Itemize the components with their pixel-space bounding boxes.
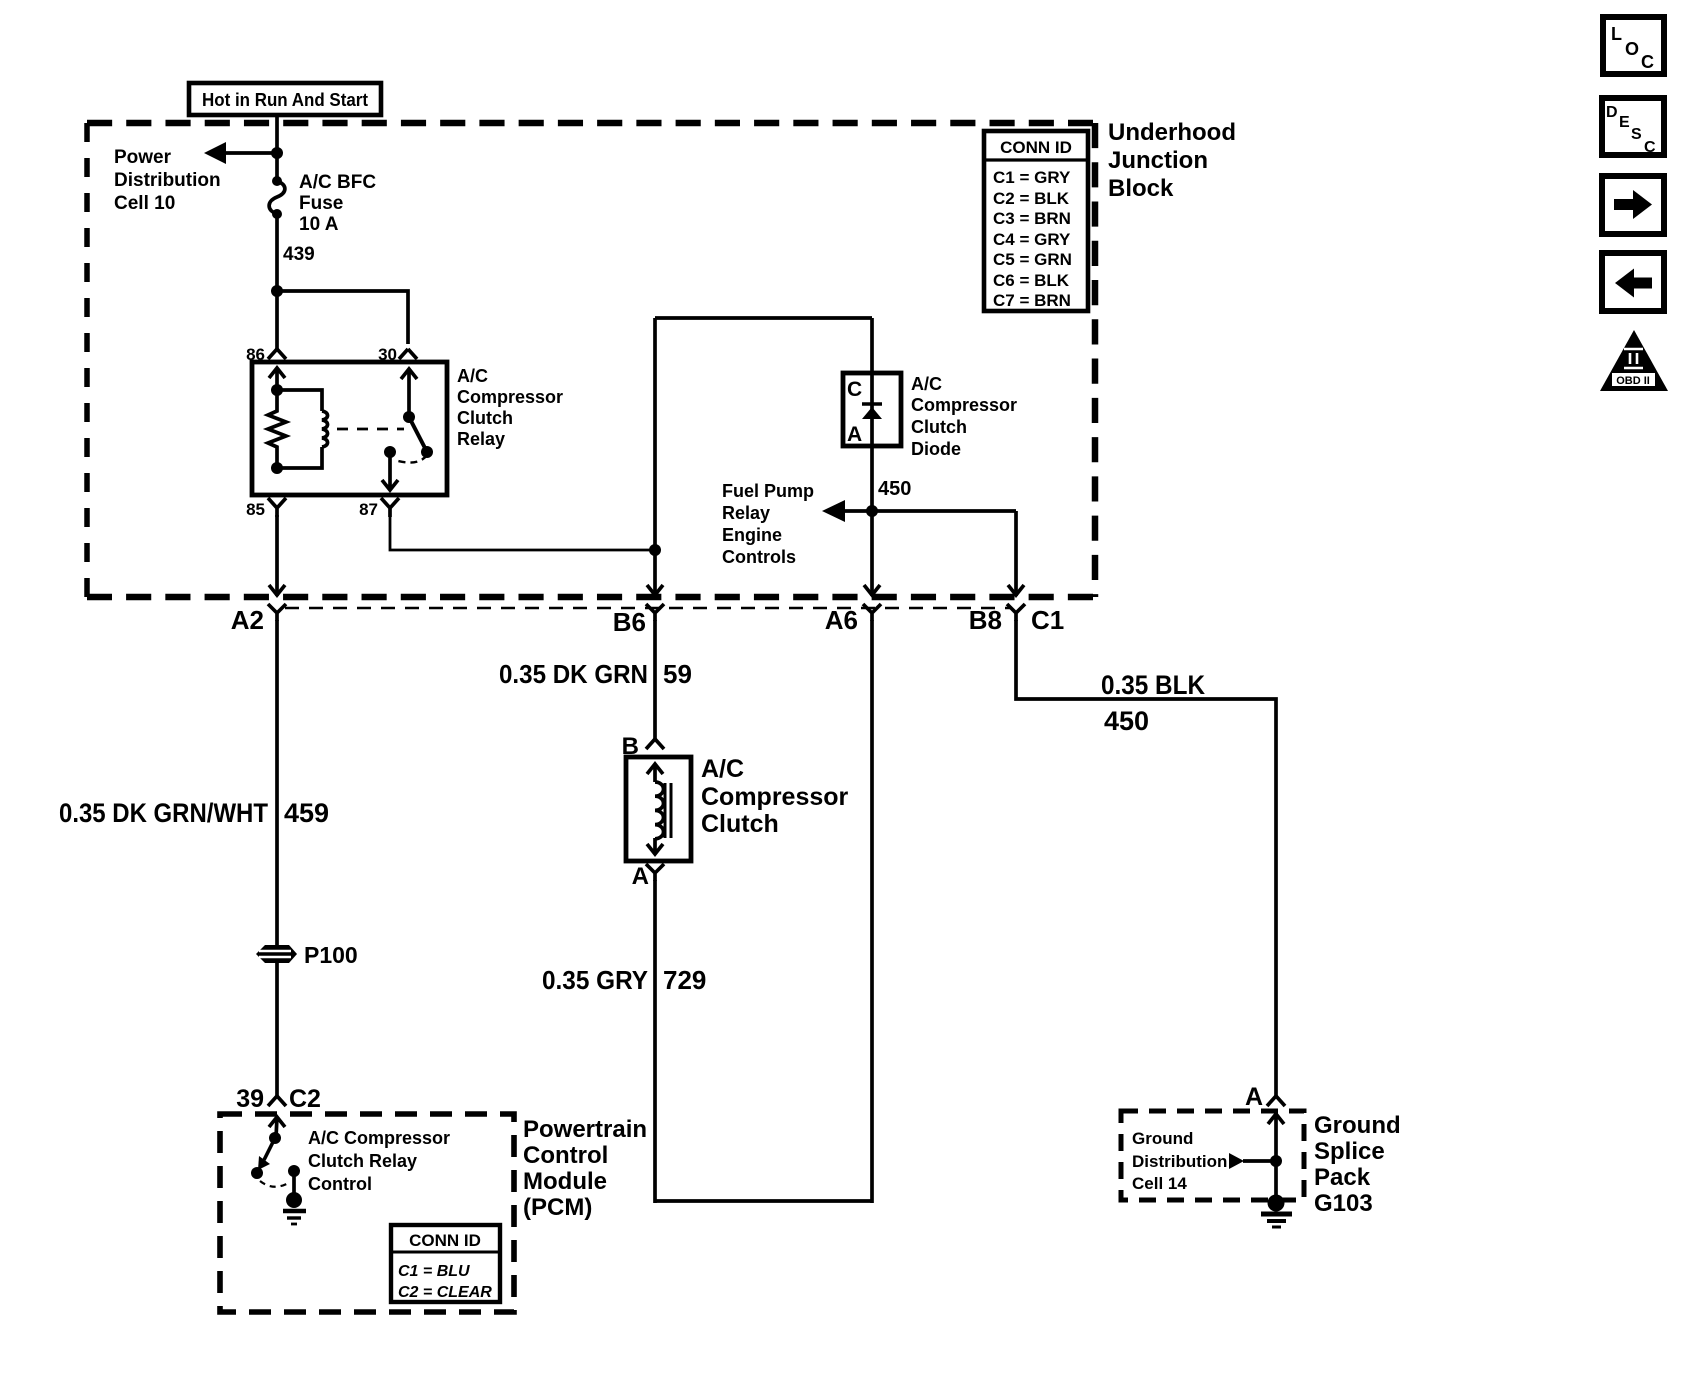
power source box "Hot In Run And Start"	[189, 83, 381, 115]
relay coil	[322, 411, 328, 447]
arrow to fuel pump relay	[822, 500, 845, 522]
wire to power distribution	[222, 151, 277, 155]
wire relay 87 to clutch loop	[390, 517, 650, 550]
label A/C Compressor Clutch Relay	[457, 366, 563, 449]
svg-text:C: C	[847, 378, 862, 401]
svg-text:C: C	[1644, 139, 1656, 156]
female connector G103 pin A	[1267, 1096, 1285, 1106]
relay coil branch wires	[277, 390, 322, 468]
svg-text:C1: C1	[1031, 605, 1064, 635]
wire fuel pump node to B8	[1014, 511, 1018, 596]
svg-text:0.35 DK GRN: 0.35 DK GRN	[499, 659, 648, 689]
svg-text:A/C BFC: A/C BFC	[299, 172, 376, 193]
svg-text:A6: A6	[825, 605, 858, 635]
svg-text:Module: Module	[523, 1168, 607, 1195]
female connector clutch pin B	[646, 739, 664, 749]
svg-text:Fuel Pump: Fuel Pump	[722, 481, 814, 501]
svg-text:E: E	[1619, 114, 1630, 131]
node relay switch moving contact	[421, 446, 433, 458]
svg-text:A: A	[847, 423, 862, 446]
wire hot feed into block	[275, 115, 279, 180]
svg-text:Controls: Controls	[722, 547, 796, 567]
relay switch travel dashed arc	[398, 455, 427, 463]
svg-text:729: 729	[663, 965, 706, 995]
svg-text:C2 = CLEAR: C2 = CLEAR	[398, 1284, 492, 1301]
svg-text:Power: Power	[114, 147, 172, 168]
clutch loop right wire upper	[870, 318, 874, 375]
svg-text:Ground: Ground	[1132, 1129, 1193, 1148]
svg-text:Engine: Engine	[722, 525, 782, 545]
svg-text:Control: Control	[523, 1142, 608, 1169]
svg-text:CONN ID: CONN ID	[409, 1231, 481, 1250]
A/C compressor clutch diode box	[843, 373, 901, 446]
svg-text:G103: G103	[1314, 1190, 1373, 1217]
svg-text:59: 59	[663, 659, 692, 689]
PCM ground ball	[286, 1192, 302, 1208]
svg-text:S: S	[1631, 126, 1642, 143]
pin 30 female connector	[399, 349, 417, 359]
splice ground bars	[1261, 1214, 1292, 1227]
wire A6 down to loop bottom	[870, 620, 874, 1203]
svg-text:Clutch: Clutch	[701, 810, 779, 838]
fuse A/C BFC 10A	[269, 176, 285, 219]
svg-text:85: 85	[246, 500, 265, 519]
splice ground wire	[1274, 1161, 1278, 1198]
clutch coil bottom arrow	[647, 838, 663, 854]
clutch loop bottom wire	[655, 1199, 872, 1203]
wire to fuel pump relay	[843, 509, 1016, 513]
svg-text:Ground: Ground	[1314, 1112, 1401, 1139]
svg-text:C2: C2	[289, 1085, 321, 1113]
label Underhood Junction Block	[1108, 119, 1236, 202]
wire to relay pin 86	[275, 291, 279, 350]
clutch loop top wire	[655, 316, 872, 320]
svg-text:Cell 10: Cell 10	[114, 193, 175, 214]
wire 459 DK GRN/WHT	[275, 620, 279, 947]
node PCM ground stem top	[288, 1165, 300, 1177]
pin 85 female connector	[268, 498, 286, 517]
svg-text:0.35 BLK: 0.35 BLK	[1101, 670, 1205, 700]
svg-text:A/C: A/C	[457, 366, 488, 386]
svg-text:Junction: Junction	[1108, 147, 1208, 174]
A/C compressor clutch box	[626, 757, 691, 861]
svg-text:CONN ID: CONN ID	[1000, 138, 1072, 157]
relay coil-switch dashed link	[337, 428, 404, 431]
female connector B8	[1007, 604, 1025, 621]
svg-text:A/C Compressor: A/C Compressor	[308, 1128, 450, 1148]
svg-text:87: 87	[359, 500, 378, 519]
wire 59 DK GRN	[653, 620, 657, 740]
male arrow at A6	[864, 585, 880, 595]
svg-text:Distribution: Distribution	[1132, 1152, 1227, 1171]
sidebar previous-page arrow button	[1602, 253, 1664, 311]
connector row thin dashed line	[285, 607, 1010, 609]
svg-text:459: 459	[284, 798, 329, 828]
label A/C BFC Fuse 10 A	[299, 172, 376, 235]
svg-text:C7 = BRN: C7 = BRN	[993, 291, 1071, 310]
svg-text:Pack: Pack	[1314, 1164, 1371, 1191]
splice terminal male arrow	[1268, 1114, 1284, 1161]
svg-text:Fuse: Fuse	[299, 193, 343, 214]
svg-text:Compressor: Compressor	[911, 395, 1017, 415]
relay switch terminal 30 arrow	[401, 369, 417, 417]
label Ground Splice Pack G103	[1314, 1112, 1401, 1217]
svg-text:Clutch: Clutch	[911, 417, 967, 437]
svg-text:450: 450	[878, 478, 911, 500]
node PCM driver stationary contact	[251, 1167, 263, 1179]
label Fuel Pump Relay Engine Controls	[722, 481, 814, 567]
node relay switch pivot	[403, 411, 415, 423]
node relay coil bottom	[271, 462, 283, 474]
svg-text:Compressor: Compressor	[457, 387, 563, 407]
wire relay 85 to A2	[275, 515, 279, 596]
node ground splice	[1270, 1155, 1282, 1167]
node diode to fuel pump junction	[866, 505, 878, 517]
svg-text:0.35 GRY: 0.35 GRY	[542, 965, 648, 995]
node PCM driver pivot	[269, 1132, 281, 1144]
svg-text:O: O	[1625, 39, 1639, 59]
splice ground ball	[1268, 1195, 1285, 1212]
svg-text:B8: B8	[969, 605, 1002, 635]
svg-text:A/C: A/C	[911, 374, 942, 394]
PCM CONN ID table	[391, 1225, 500, 1302]
inline connector P100	[256, 945, 297, 963]
female connector C2 pin 39	[268, 1096, 286, 1106]
svg-text:0.35 DK GRN/WHT: 0.35 DK GRN/WHT	[59, 798, 268, 828]
svg-text:P100: P100	[304, 942, 358, 968]
wire branch to relay pin 30	[277, 291, 408, 344]
relay switch lever	[409, 417, 426, 450]
svg-text:B6: B6	[613, 607, 646, 637]
svg-text:Hot in Run And Start: Hot in Run And Start	[202, 90, 368, 110]
sidebar next-page arrow button	[1602, 176, 1664, 234]
svg-text:C: C	[1641, 52, 1654, 72]
wire 729 GRY	[653, 880, 657, 1203]
svg-text:OBD II: OBD II	[1616, 375, 1650, 387]
PCM ground bars	[283, 1211, 306, 1224]
sidebar DESC button	[1602, 98, 1664, 156]
pin 87 female connector	[381, 498, 399, 517]
sidebar LOC button	[1603, 17, 1664, 74]
wire 450 BLK to ground splice	[1016, 620, 1276, 1097]
label A/C Compressor Clutch Diode	[911, 374, 1017, 459]
clutch coil winding	[655, 782, 664, 839]
svg-text:C4 = GRY: C4 = GRY	[993, 230, 1071, 249]
svg-text:A: A	[632, 863, 649, 890]
svg-text:A: A	[1245, 1083, 1263, 1111]
label A/C Compressor Clutch Relay Control	[308, 1128, 450, 1194]
PCM switch travel dashed arc	[260, 1181, 290, 1187]
svg-text:Splice: Splice	[1314, 1138, 1385, 1165]
clutch coil core lines	[665, 783, 671, 838]
label Power Distribution Cell 10	[114, 147, 221, 214]
svg-text:439: 439	[283, 244, 315, 265]
female connector A6	[863, 604, 881, 621]
svg-text:C5 = GRN: C5 = GRN	[993, 250, 1072, 269]
node relay terminal 87	[384, 446, 396, 458]
svg-text:Relay: Relay	[722, 503, 770, 523]
label A/C Compressor Clutch	[701, 755, 849, 838]
PCM driver switch lever arrow	[258, 1138, 275, 1170]
ground splice pack dashed box	[1121, 1111, 1304, 1200]
label Ground Distribution Cell 14	[1132, 1129, 1227, 1193]
svg-text:Clutch Relay: Clutch Relay	[308, 1151, 417, 1171]
svg-text:Clutch: Clutch	[457, 408, 513, 428]
svg-text:Distribution: Distribution	[114, 170, 221, 191]
male arrow at B8	[1008, 585, 1024, 595]
node relay coil top	[271, 384, 283, 396]
female connector B6	[646, 604, 664, 621]
svg-text:Diode: Diode	[911, 439, 961, 459]
PCM terminal 39 male arrow	[269, 1117, 285, 1138]
relay K4 A/C compressor clutch relay box	[252, 362, 447, 495]
ground distribution pointer arrow	[1229, 1153, 1276, 1169]
svg-text:(PCM): (PCM)	[523, 1194, 592, 1221]
svg-text:39: 39	[236, 1085, 264, 1113]
male arrow at B6	[647, 585, 663, 595]
svg-text:A2: A2	[231, 605, 264, 635]
svg-text:Powertrain: Powertrain	[523, 1116, 647, 1143]
arrow to power distribution	[204, 142, 226, 164]
pin 86 female connector	[268, 349, 286, 359]
svg-text:Underhood: Underhood	[1108, 119, 1236, 146]
node feed split	[271, 285, 283, 297]
svg-text:C6 = BLK: C6 = BLK	[993, 271, 1070, 290]
female connector clutch pin A	[646, 864, 664, 881]
underhood CONN ID table	[984, 131, 1088, 311]
clutch loop left wire upper	[653, 318, 657, 596]
svg-text:C3 = BRN: C3 = BRN	[993, 209, 1071, 228]
svg-text:C1 = BLU: C1 = BLU	[398, 1263, 470, 1280]
PCM dashed border	[220, 1114, 514, 1312]
svg-text:Cell 14: Cell 14	[1132, 1174, 1187, 1193]
svg-text:450: 450	[1104, 706, 1149, 736]
svg-text:Relay: Relay	[457, 429, 505, 449]
clutch coil top arrow	[647, 764, 663, 782]
diode symbol	[862, 404, 882, 419]
wire 439	[275, 214, 279, 291]
PCM ground stem wire	[292, 1171, 296, 1196]
svg-text:Block: Block	[1108, 175, 1174, 202]
svg-text:D: D	[1606, 104, 1618, 121]
node power distribution tap	[271, 147, 283, 159]
relay shunt resistor	[268, 390, 286, 468]
svg-text:Control: Control	[308, 1174, 372, 1194]
female connector A2	[268, 604, 286, 621]
label Powertrain Control Module (PCM)	[523, 1116, 647, 1221]
male arrow at A2	[269, 585, 285, 595]
svg-text:Compressor: Compressor	[701, 783, 849, 811]
svg-text:C1 = GRY: C1 = GRY	[993, 168, 1071, 187]
node clutch loop junction	[649, 544, 661, 556]
underhood junction block dashed border	[87, 123, 1095, 597]
relay terminal 87 arrow	[382, 452, 398, 490]
svg-text:10 A: 10 A	[299, 214, 339, 235]
OBD II warning triangle	[1600, 330, 1668, 391]
svg-text:A/C: A/C	[701, 755, 744, 783]
relay coil terminal arrow 86	[269, 368, 285, 390]
svg-text:C2 = BLK: C2 = BLK	[993, 189, 1070, 208]
diode wire through box	[870, 375, 874, 511]
svg-text:L: L	[1611, 24, 1622, 44]
wire to PCM pin 39	[275, 961, 279, 1097]
clutch loop right wire lower	[870, 511, 874, 596]
